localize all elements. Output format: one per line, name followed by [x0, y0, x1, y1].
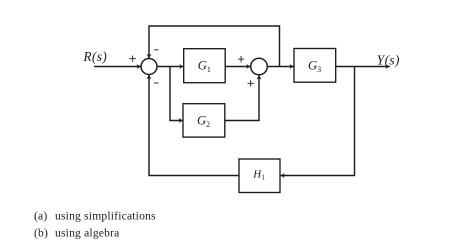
svg-text:R(s): R(s): [83, 49, 108, 64]
wire feedback pickoff (node before G3) up over top and down into S1 top: [149, 26, 280, 67]
wire S1 to G1: [157, 66, 184, 68]
svg-text:(b)using algebra: (b)using algebra: [34, 227, 119, 240]
block H1: [239, 159, 280, 193]
block G3: [294, 49, 336, 83]
wire output pickoff (node after G3) down into H1: [280, 67, 354, 176]
svg-text:Y(s): Y(s): [377, 53, 400, 68]
wire G2 output up into S2 bottom: [225, 75, 259, 120]
wire input R(s) to summer S1: [94, 66, 141, 68]
summing junction S1: [141, 59, 157, 75]
block G1: [184, 49, 226, 83]
minus sign at S1 bottom input: [154, 82, 159, 84]
plus sign at S2 bottom input: [248, 80, 254, 86]
wire H1 back up into S1 bottom: [149, 75, 239, 176]
plus sign at S1 left input: [129, 56, 135, 62]
minus sign at S1 top input: [154, 49, 159, 51]
wire G3 to output Y(s): [336, 66, 390, 68]
svg-text:(a)using simplifications: (a)using simplifications: [34, 210, 156, 223]
block G2: [183, 104, 225, 137]
wire pickoff junction down and into G2: [170, 67, 183, 121]
wire G1 to summer S2: [225, 66, 250, 68]
summing junction S2: [251, 58, 268, 75]
plus sign at S2 left input: [238, 56, 244, 62]
wire S2 to G3: [267, 66, 294, 68]
